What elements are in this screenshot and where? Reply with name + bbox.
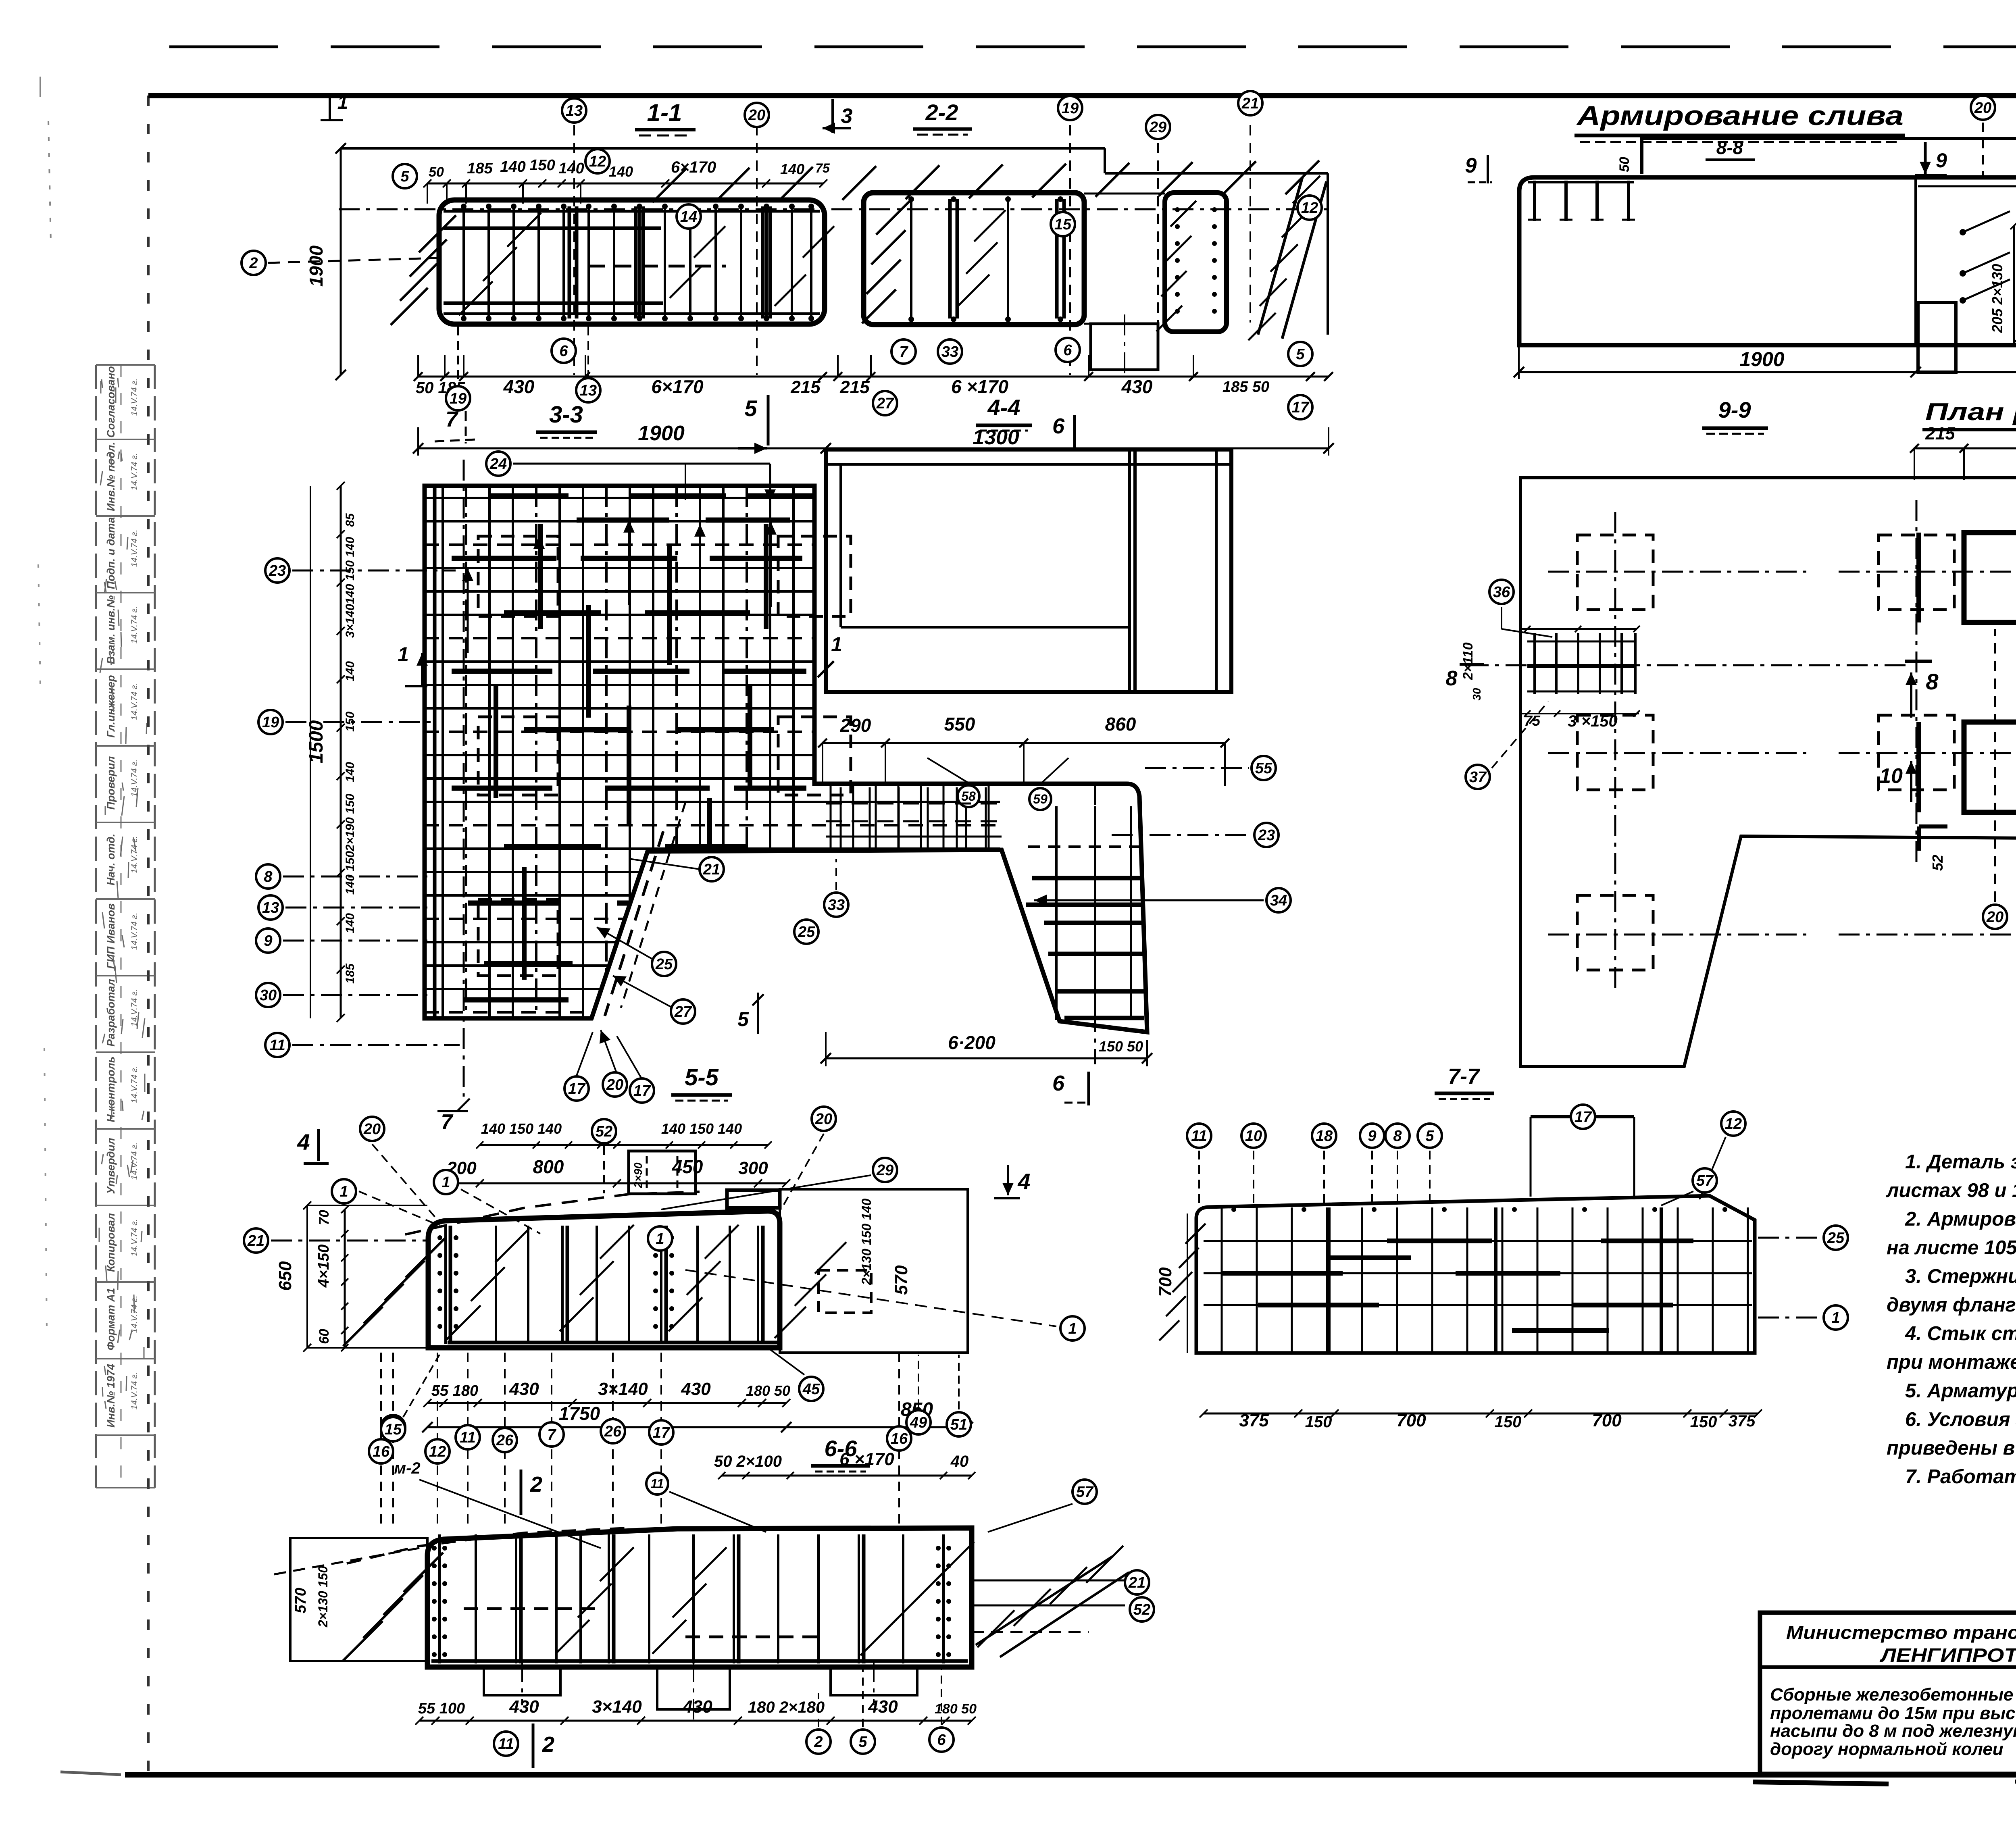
svg-text:14.V.74 г.: 14.V.74 г. (130, 1372, 139, 1410)
svg-text:Сборные железобетонные мосты: Сборные железобетонные мосты (1770, 1685, 2016, 1705)
svg-text:11: 11 (269, 1037, 285, 1054)
svg-text:приведены в пояснительной з: приведены в пояснительной записке. (1887, 1437, 2016, 1459)
svg-text:17: 17 (1292, 399, 1310, 416)
rebar mark 12 (425, 1439, 450, 1463)
svg-text:21: 21 (703, 861, 720, 878)
svg-text:52: 52 (1929, 855, 1946, 871)
right extension of 6-6 (972, 1580, 1125, 1582)
rebar mark 15 (1051, 212, 1075, 236)
svg-text:40: 40 (950, 1453, 969, 1470)
svg-text:1-1: 1-1 (647, 99, 682, 126)
rebar mark 11 (265, 1033, 289, 1057)
svg-text:430: 430 (509, 1697, 539, 1717)
svg-text:140: 140 (344, 661, 357, 681)
svg-text:14.V.74 г.: 14.V.74 г. (130, 913, 139, 950)
sheet frame left edge (dashed) (147, 96, 150, 1775)
svg-text:150 50: 150 50 (1099, 1038, 1143, 1055)
svg-text:2: 2 (814, 1734, 823, 1751)
svg-text:1750: 1750 (559, 1403, 600, 1424)
svg-text:8: 8 (1446, 667, 1458, 690)
section 7 cut trace through plan (463, 460, 465, 1097)
rebar mark 14 (677, 204, 701, 229)
svg-text:1: 1 (398, 643, 409, 666)
top margin dashed trim line (169, 46, 2016, 48)
rebar mark 23 (1254, 823, 1279, 847)
svg-text:60: 60 (317, 1329, 332, 1344)
svg-text:140 150 140: 140 150 140 (481, 1120, 562, 1137)
svg-text:4×150: 4×150 (315, 1245, 332, 1288)
top-right bold chord piece (727, 1190, 780, 1208)
rebar mark 33 (824, 893, 848, 917)
svg-text:3. Стержни N 18,19,20 свари: 3. Стержни N 18,19,20 сварить внахлестку (1905, 1266, 2016, 1287)
rebar mark 16 (887, 1426, 911, 1451)
svg-text:Формат А1: Формат А1 (105, 1288, 117, 1351)
shared mark row between 5-5 and 6-6 (392, 1353, 394, 1526)
svg-text:26: 26 (604, 1423, 622, 1440)
svg-text:21: 21 (1241, 95, 1259, 112)
svg-text:15: 15 (1054, 216, 1072, 233)
top step outline of sliv (1642, 139, 2016, 174)
section 5-5 hatching (343, 1307, 383, 1346)
rebar mark 8 (1385, 1124, 1410, 1148)
svg-text:430: 430 (868, 1697, 898, 1717)
svg-text:2×90: 2×90 (632, 1162, 644, 1188)
axis centerline through sections 1-1 and 2-2 (339, 208, 1327, 210)
svg-text:6: 6 (1052, 414, 1065, 438)
rebar mark 20 (812, 1107, 836, 1131)
svg-text:8: 8 (1393, 1128, 1402, 1145)
svg-text:1. Деталь заделки свай в: 1. Деталь заделки свай в насадке см на (1905, 1151, 2016, 1173)
svg-text:140: 140 (558, 160, 584, 177)
svg-text:14.V.74 г.: 14.V.74 г. (130, 379, 139, 416)
svg-text:27: 27 (674, 1003, 692, 1020)
slope cut dashed lines (605, 831, 663, 1016)
svg-text:14.V.74 г.: 14.V.74 г. (130, 453, 139, 491)
svg-text:19: 19 (262, 714, 279, 731)
svg-text:300: 300 (738, 1158, 768, 1178)
upper extension line of slab top (341, 147, 1105, 150)
svg-text:800: 800 (533, 1156, 564, 1177)
left small mesh grid (1527, 641, 1637, 643)
rebar mark 15 (381, 1415, 405, 1439)
rebar mark 12 (585, 149, 610, 173)
svg-text:57: 57 (1696, 1172, 1714, 1189)
section markers 8 / 10 in plan (1910, 672, 1912, 718)
svg-text:430: 430 (503, 376, 535, 397)
rebar mark 36 (1489, 580, 1514, 604)
svg-text:550: 550 (944, 714, 975, 735)
svg-text:34: 34 (1270, 892, 1287, 909)
svg-text:33: 33 (941, 343, 958, 360)
section 1-1 rebar cage outline (439, 200, 825, 324)
section 6-6 cage outline (427, 1528, 972, 1667)
svg-text:2-2: 2-2 (925, 100, 958, 125)
rebar mark 26 (493, 1428, 517, 1452)
svg-text:5-5: 5-5 (685, 1064, 719, 1091)
svg-text:21: 21 (1128, 1574, 1145, 1591)
rebar mark 1 (434, 1170, 458, 1194)
svg-text:10: 10 (1245, 1128, 1262, 1145)
rebar mark 11 (456, 1425, 480, 1449)
svg-text:3 ×150: 3 ×150 (1568, 712, 1617, 730)
svg-text:18: 18 (1316, 1128, 1333, 1145)
section 6-6 inner bars (438, 1534, 441, 1663)
svg-text:19: 19 (450, 390, 467, 407)
rebar mark 5 (1288, 342, 1312, 366)
dashed slope of 6-6 (347, 1528, 629, 1563)
svg-text:180 2×180: 180 2×180 (748, 1699, 825, 1716)
rebar mark 2 leader (268, 258, 437, 263)
svg-text:5: 5 (744, 395, 757, 421)
sloped end hatching band (1258, 177, 1302, 335)
svg-text:150: 150 (1690, 1413, 1717, 1431)
svg-text:215: 215 (839, 377, 870, 397)
svg-text:30: 30 (260, 987, 277, 1004)
svg-text:1: 1 (1068, 1320, 1077, 1337)
right marks of 7-7 (1758, 1237, 1821, 1239)
svg-text:20: 20 (363, 1121, 381, 1138)
rebar mark 8 (256, 864, 280, 889)
svg-text:2×190 150: 2×190 150 (344, 793, 357, 851)
pile squares dashed in khomut plan (1577, 535, 1653, 610)
svg-text:430: 430 (509, 1379, 539, 1399)
thin end-view box right of 5-5 (780, 1189, 968, 1353)
svg-text:58: 58 (961, 789, 976, 803)
section 1-1 hatching (391, 288, 428, 325)
left ticks of 7-7 (1159, 1320, 1179, 1341)
svg-text:55: 55 (1255, 760, 1272, 777)
svg-text:6: 6 (937, 1732, 946, 1748)
svg-text:49: 49 (910, 1414, 927, 1431)
rebar mark 52 (592, 1119, 616, 1143)
section 5 cut trace bottom mark (757, 993, 759, 1034)
svg-text:140: 140 (780, 161, 804, 177)
svg-text:Взам. инв.№: Взам. инв.№ (105, 595, 117, 664)
svg-text:2: 2 (542, 1732, 554, 1757)
pier arm grid (826, 803, 1002, 805)
sliv pedestal 1 (1918, 302, 1956, 372)
svg-text:375: 375 (1729, 1412, 1756, 1430)
svg-text:8: 8 (264, 868, 273, 885)
svg-text:14.V.74 г.: 14.V.74 г. (130, 1143, 139, 1180)
rebar mark 51 (947, 1412, 971, 1436)
svg-text:75: 75 (815, 161, 830, 175)
svg-text:59: 59 (1033, 792, 1048, 806)
rebar mark 5 (393, 164, 417, 188)
rebar mark 2 (242, 251, 266, 275)
rebar mark 58 (958, 785, 979, 807)
svg-text:4: 4 (297, 1129, 310, 1155)
svg-text:13: 13 (262, 899, 279, 916)
rebar mark 57 (1073, 1480, 1097, 1504)
lap bar bracket no.17 (1531, 1115, 1634, 1118)
svg-text:430: 430 (681, 1379, 711, 1399)
rebar mark 20 (603, 1072, 627, 1097)
svg-text:23: 23 (1258, 827, 1275, 844)
svg-text:12: 12 (1725, 1116, 1742, 1132)
svg-text:Инв.№ подл.: Инв.№ подл. (105, 442, 117, 511)
svg-text:17: 17 (633, 1082, 651, 1099)
divider between 8-8 and 10-10 views (1914, 177, 1917, 345)
bottom dimension row of sections 1-1/2-2 (418, 376, 1329, 378)
svg-text:двумя фланговыми швами.: двумя фланговыми швами. (1887, 1294, 2016, 1316)
svg-text:55 180: 55 180 (431, 1382, 478, 1399)
rebar marks near slope cut (629, 859, 700, 869)
svg-text:57: 57 (1076, 1484, 1094, 1501)
svg-text:ЛЕНГИПРОТРАНСМОСТ: ЛЕНГИПРОТРАНСМОСТ (1880, 1645, 2016, 1666)
plan 3-3 rebar mesh (425, 486, 1000, 1020)
svg-text:14.V.74 г.: 14.V.74 г. (130, 606, 139, 644)
section 2-2 rebar cage outline (864, 193, 1084, 325)
svg-text:при монтаже.: при монтаже. (1887, 1351, 2016, 1373)
svg-text:20: 20 (1986, 909, 2004, 926)
svg-text:13: 13 (580, 382, 597, 399)
svg-text:Копировал: Копировал (105, 1213, 117, 1272)
svg-text:27: 27 (876, 395, 894, 412)
dimension row above section 1-1 (427, 183, 823, 185)
sheet frame top edge (148, 93, 2016, 98)
svg-text:140: 140 (500, 158, 525, 175)
rebar mark 2 (806, 1730, 831, 1754)
svg-text:9: 9 (1368, 1128, 1376, 1145)
svg-text:52: 52 (596, 1123, 612, 1140)
bottom dimension 6x200 (826, 1057, 1147, 1060)
svg-text:700: 700 (1156, 1267, 1175, 1297)
bottom dimension row of 6-6 (419, 1720, 972, 1722)
rebar mark 5 (1418, 1124, 1442, 1148)
svg-text:насыпи до 8 м под железную: насыпи до 8 м под железную (1770, 1721, 2016, 1741)
svg-text:215: 215 (1925, 424, 1955, 443)
pedestals under 6-6 (484, 1667, 560, 1695)
rebar mark 15 (381, 1417, 405, 1441)
svg-text:5: 5 (1425, 1128, 1434, 1145)
section 1-1 stirrups (462, 206, 465, 318)
svg-text:9-9: 9-9 (1718, 397, 1751, 423)
rebar mark 26 (601, 1419, 625, 1443)
left vertical dimension 1900 of section 1-1 (340, 148, 342, 375)
svg-text:20: 20 (606, 1076, 623, 1093)
svg-text:45: 45 (802, 1381, 820, 1398)
svg-text:17: 17 (1574, 1109, 1592, 1126)
svg-text:50: 50 (429, 164, 444, 180)
rebar mark 25 (652, 952, 676, 976)
svg-text:Утвердил: Утвердил (105, 1138, 117, 1194)
svg-text:17: 17 (568, 1080, 586, 1097)
svg-text:1: 1 (1831, 1309, 1840, 1326)
svg-text:700: 700 (1592, 1411, 1622, 1430)
rebar mark 45 (799, 1377, 823, 1401)
svg-text:9: 9 (1465, 154, 1477, 177)
overall dimension line 1900 / 1300 (418, 448, 1329, 450)
svg-text:29: 29 (1149, 119, 1166, 136)
svg-text:6×170: 6×170 (671, 158, 716, 176)
svg-text:3×140: 3×140 (344, 604, 357, 638)
svg-text:11: 11 (498, 1736, 514, 1753)
svg-text:1900: 1900 (1739, 348, 1784, 371)
rebar mark 21 (244, 1228, 268, 1253)
rebar mark 6 (929, 1728, 954, 1752)
long section trace 8-8 centerline (1468, 664, 1911, 666)
rebar mark 16 (369, 1439, 393, 1463)
svg-text:3×140: 3×140 (598, 1379, 648, 1399)
rebar mark 49 (906, 1410, 931, 1434)
svg-text:Министерство транспортного с: Министерство транспортного строительства (1786, 1622, 2016, 1643)
svg-text:14.V.74 г.: 14.V.74 г. (130, 683, 139, 720)
section 5-5 cage outline (428, 1211, 780, 1348)
svg-text:150: 150 (344, 712, 357, 732)
rebar mark 59 (1029, 788, 1051, 810)
rebar mark 21 (1238, 91, 1262, 115)
svg-text:Нач. отд.: Нач. отд. (105, 834, 117, 886)
svg-text:ГИП Иванов: ГИП Иванов (105, 903, 117, 969)
rebar mark 24 (486, 452, 510, 476)
svg-text:430: 430 (1121, 376, 1153, 397)
rebar mark 11 (646, 1473, 668, 1495)
rebar mark 13 (562, 98, 586, 123)
svg-text:6: 6 (1063, 342, 1072, 359)
svg-text:9: 9 (1936, 149, 1947, 172)
svg-text:5: 5 (1296, 346, 1305, 363)
title block outline (1760, 1613, 2016, 1774)
rebar mark 6 (552, 339, 576, 363)
svg-text:15: 15 (385, 1421, 402, 1438)
svg-text:37: 37 (1469, 769, 1487, 786)
svg-text:4: 4 (1017, 1169, 1030, 1194)
rebar mark 21 (700, 857, 724, 881)
section 7-7 outline (1196, 1196, 1755, 1353)
svg-text:2×130 150: 2×130 150 (316, 1566, 330, 1628)
svg-text:Разработал: Разработал (105, 979, 117, 1047)
rebar marks around 5-5 (372, 1144, 435, 1218)
svg-text:450: 450 (672, 1156, 703, 1177)
svg-text:150: 150 (529, 157, 555, 174)
section 6-6 hatching (343, 1621, 383, 1661)
svg-text:20: 20 (1974, 100, 1991, 117)
svg-text:3×140: 3×140 (592, 1697, 642, 1717)
mark 1 long leader bottom (685, 1270, 1056, 1326)
rebar mark 21 (1125, 1570, 1149, 1594)
section 2-2 stirrups and hatch (910, 199, 912, 318)
top marks of 7-7 (1198, 1151, 1200, 1205)
svg-text:14.V.74 г.: 14.V.74 г. (130, 1066, 139, 1103)
svg-text:5: 5 (400, 168, 409, 185)
svg-text:570: 570 (292, 1588, 309, 1613)
svg-text:140: 140 (344, 913, 357, 933)
left dimensions of 5-5 (344, 1209, 346, 1348)
svg-text:листах 98 и 106: листах 98 и 106 (1886, 1180, 2016, 1201)
svg-text:25: 25 (1827, 1230, 1845, 1247)
svg-text:11: 11 (650, 1476, 664, 1491)
rebar mark 5 (851, 1730, 875, 1754)
svg-text:Инв.№ 1974: Инв.№ 1974 (105, 1364, 117, 1428)
svg-text:6 ×170: 6 ×170 (951, 376, 1008, 397)
svg-text:52: 52 (1133, 1601, 1150, 1618)
svg-text:6: 6 (559, 343, 568, 360)
rebar mark 12 (1721, 1112, 1745, 1136)
svg-text:25: 25 (798, 924, 815, 941)
svg-text:570: 570 (891, 1265, 911, 1295)
thin link lines between 2-2 parts (1084, 193, 1165, 195)
rebar mark 20 (1971, 96, 1995, 120)
rebar mark 11 (494, 1732, 518, 1756)
end rebar cage (2-2 right) (1165, 193, 1227, 332)
rebar mark 11 (1187, 1124, 1211, 1148)
rebar mark 7 (539, 1422, 564, 1447)
svg-text:м-2: м-2 (394, 1459, 420, 1477)
svg-text:7: 7 (446, 407, 459, 431)
rebar mark 12 (1297, 196, 1322, 220)
svg-text:Гл.инженер: Гл.инженер (105, 675, 117, 737)
pedestal under slab end (1091, 324, 1158, 370)
svg-text:7: 7 (441, 1110, 454, 1134)
centerlines khomut plan (1548, 571, 1806, 573)
rebar mark 1 (648, 1226, 672, 1251)
svg-text:20: 20 (748, 107, 765, 124)
section 7-7 mesh (1204, 1240, 1752, 1242)
svg-text:Проверил: Проверил (105, 756, 117, 810)
slope hatching above sections (652, 169, 686, 202)
svg-text:на листе 105.: на листе 105. (1887, 1237, 2016, 1259)
bar direction arrows in plan 3-3 (538, 536, 540, 621)
svg-text:50 2×100: 50 2×100 (714, 1453, 782, 1470)
svg-text:1500: 1500 (306, 720, 327, 763)
rebar mark 30 (256, 983, 280, 1007)
svg-text:180 50: 180 50 (746, 1382, 790, 1399)
svg-text:7. Работать совместно с ли: 7. Работать совместно с листом 102. (1905, 1466, 2016, 1488)
rebar mark 17 (630, 1078, 654, 1103)
tie cluster 1 (1960, 229, 1966, 235)
leader marks in khomut plan (1501, 607, 1502, 629)
svg-text:2. Армирование подферменника: 2. Армирование подферменника приведено (1905, 1208, 2016, 1230)
svg-text:5. Арматурные каркасы - вяз: 5. Арматурные каркасы - вязаные (1905, 1380, 2016, 1402)
svg-text:19: 19 (1062, 100, 1079, 117)
rebar mark 19 (446, 386, 470, 410)
rebar mark 20 (360, 1117, 384, 1141)
marker 9 drop arrow (1924, 142, 1927, 174)
svg-text:14.V.74 г.: 14.V.74 г. (130, 1219, 139, 1257)
svg-text:7: 7 (899, 343, 908, 360)
rebar mark 34 (1266, 888, 1291, 912)
svg-text:23: 23 (269, 562, 286, 579)
rebar mark 13 (258, 895, 283, 920)
bottom dimensions of 5-5 (427, 1402, 786, 1404)
leaders from sliv marks (1982, 123, 1984, 177)
rebar mark 23 (265, 558, 289, 583)
rebar mark 9 (1360, 1124, 1384, 1148)
svg-text:6 ×170: 6 ×170 (839, 1449, 894, 1469)
svg-text:50: 50 (1617, 157, 1632, 172)
leader lines from top rebar marks (573, 125, 575, 375)
svg-text:5: 5 (858, 1734, 867, 1751)
view 4-4 outline (826, 450, 1231, 692)
svg-text:26: 26 (496, 1432, 514, 1449)
svg-text:7: 7 (547, 1426, 556, 1443)
svg-text:860: 860 (1105, 714, 1136, 735)
rebar mark 57 (1693, 1168, 1717, 1193)
svg-text:16: 16 (891, 1430, 908, 1447)
svg-text:10: 10 (1879, 764, 1903, 788)
svg-text:290: 290 (840, 715, 871, 736)
svg-text:11: 11 (460, 1429, 475, 1446)
svg-text:55 100: 55 100 (418, 1700, 465, 1717)
svg-text:1900: 1900 (306, 245, 327, 287)
svg-text:24: 24 (489, 456, 507, 473)
svg-text:12: 12 (589, 153, 606, 170)
rebar mark 17 (564, 1076, 589, 1101)
rebar mark 25 (1824, 1226, 1848, 1250)
svg-text:1: 1 (442, 1174, 450, 1191)
svg-text:14: 14 (680, 208, 697, 225)
